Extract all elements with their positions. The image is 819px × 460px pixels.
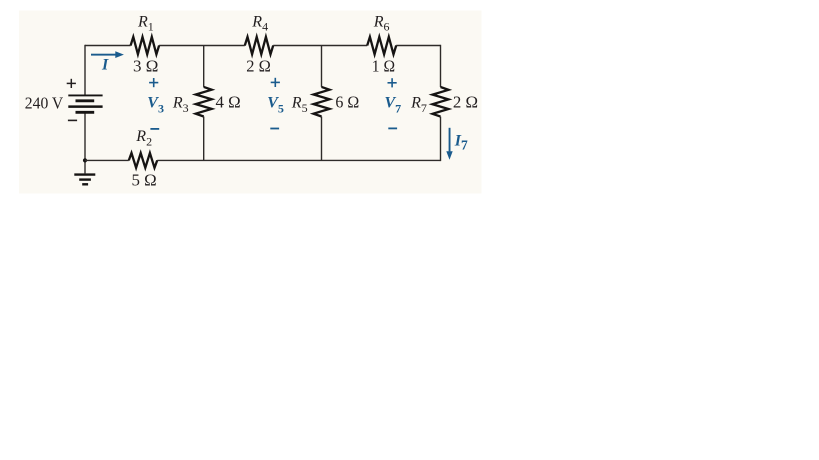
resistor R1 — [131, 37, 160, 54]
svg-text:2 Ω: 2 Ω — [453, 93, 478, 112]
wire branch R5 vertical — [321, 46, 323, 161]
resistor R4 — [245, 37, 273, 54]
svg-text:6 Ω: 6 Ω — [335, 93, 359, 112]
wire bottom horizontal — [85, 159, 441, 161]
resistor R5 — [314, 87, 330, 117]
polarity minus V7 — [388, 127, 397, 129]
battery minus sign — [68, 119, 77, 121]
svg-text:2 Ω: 2 Ω — [246, 57, 271, 76]
wire left vertical (battery branch) — [84, 45, 86, 174]
wire top horizontal — [85, 45, 441, 47]
wire right vertical (R7 branch) — [440, 45, 442, 161]
polarity minus V3 — [150, 128, 159, 130]
voltage source E 240 V — [68, 95, 102, 112]
current arrow I7 — [446, 128, 452, 160]
current arrow I — [91, 51, 124, 58]
wire branch R3 vertical — [203, 46, 205, 161]
polarity plus V3 — [149, 78, 158, 87]
svg-text:240 V: 240 V — [25, 94, 63, 113]
polarity plus V5 — [271, 78, 280, 87]
svg-text:I: I — [101, 57, 109, 74]
polarity plus V7 — [388, 78, 397, 87]
battery plus sign — [67, 79, 76, 88]
resistor R3 — [196, 87, 212, 117]
resistor R6 — [367, 37, 396, 54]
resistor R2 — [129, 153, 157, 168]
svg-text:5 Ω: 5 Ω — [132, 171, 157, 190]
junction node (battery / bottom wire) — [83, 158, 87, 162]
polarity minus V5 — [270, 128, 279, 130]
ground — [74, 175, 95, 185]
figure panel background — [19, 11, 482, 194]
svg-text:1 Ω: 1 Ω — [372, 57, 395, 76]
svg-text:3 Ω: 3 Ω — [133, 57, 158, 76]
svg-text:4 Ω: 4 Ω — [216, 93, 241, 112]
resistor R7 — [433, 87, 449, 117]
